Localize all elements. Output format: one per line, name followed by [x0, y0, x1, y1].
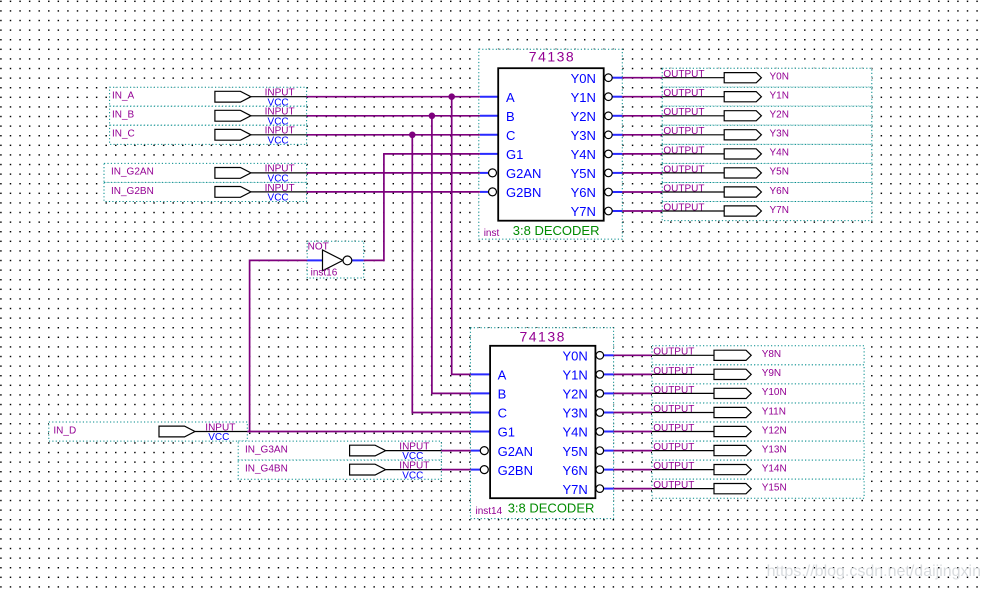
output pin Y15N: [652, 479, 864, 498]
output pin Y7N: [662, 202, 872, 221]
wire Y13N: [614, 450, 652, 452]
output pin Y2N: [662, 106, 872, 125]
wire Y8N: [614, 354, 652, 356]
svg-text:B: B: [498, 387, 507, 402]
svg-text:OUTPUT: OUTPUT: [653, 366, 694, 377]
input pin IN_D: [49, 422, 248, 443]
wire Y5N: [622, 172, 662, 174]
wire Y12N: [614, 431, 652, 433]
svg-text:inst: inst: [484, 228, 500, 239]
watermark: [767, 563, 981, 580]
wire IN_G4BN to G2BN: [441, 469, 471, 471]
input pin IN_C: [110, 125, 307, 146]
svg-text:Y10N: Y10N: [762, 387, 787, 398]
output pin Y14N: [652, 460, 864, 479]
svg-text:G2AN: G2AN: [506, 166, 541, 181]
svg-text:Y4N: Y4N: [770, 148, 789, 159]
svg-text:Y0N: Y0N: [571, 71, 596, 86]
wire C branch: [412, 135, 471, 413]
svg-text:Y5N: Y5N: [563, 444, 588, 459]
svg-text:Y13N: Y13N: [762, 444, 787, 455]
svg-text:OUTPUT: OUTPUT: [663, 88, 704, 99]
wire Y0N: [622, 77, 662, 79]
junction C: [409, 132, 416, 139]
decoder U2 74138 (inst14): [470, 328, 613, 519]
output pin Y3N: [662, 125, 872, 144]
svg-text:Y9N: Y9N: [762, 368, 781, 379]
wire IN_C to C: [307, 134, 480, 136]
svg-text:Y6N: Y6N: [770, 186, 789, 197]
svg-text:Y6N: Y6N: [571, 185, 596, 200]
svg-text:IN_G2AN: IN_G2AN: [111, 167, 154, 178]
junction A: [448, 93, 455, 100]
svg-text:Y5N: Y5N: [770, 167, 789, 178]
svg-text:Y0N: Y0N: [770, 72, 789, 83]
svg-text:G1: G1: [506, 147, 523, 162]
output pin Y1N: [662, 87, 872, 106]
svg-text:OUTPUT: OUTPUT: [663, 107, 704, 118]
svg-text:Y11N: Y11N: [762, 406, 786, 417]
svg-text:OUTPUT: OUTPUT: [653, 480, 694, 491]
input pin IN_G3AN: [238, 441, 441, 462]
wire Y1N: [622, 96, 662, 98]
input pin IN_A: [110, 87, 307, 108]
svg-text:A: A: [506, 90, 515, 105]
wire IN_A to A: [307, 96, 480, 98]
wire Y15N: [614, 488, 652, 490]
wire Y3N: [622, 134, 662, 136]
svg-text:3:8 DECODER: 3:8 DECODER: [508, 501, 595, 516]
svg-text:Y0N: Y0N: [563, 349, 588, 364]
input pin IN_B: [110, 106, 307, 127]
not gate inst16: [307, 241, 364, 278]
svg-text:Y8N: Y8N: [762, 349, 781, 360]
svg-text:IN_B: IN_B: [112, 110, 135, 121]
input pin IN_G2BN: [104, 182, 307, 203]
wire IN_D to NOT input: [250, 260, 308, 431]
svg-text:Y15N: Y15N: [762, 482, 787, 493]
svg-text:Y6N: Y6N: [563, 463, 588, 478]
svg-text:Y7N: Y7N: [563, 482, 588, 497]
svg-text:OUTPUT: OUTPUT: [663, 145, 704, 156]
svg-text:Y4N: Y4N: [563, 425, 588, 440]
output pin Y5N: [662, 163, 872, 182]
svg-text:OUTPUT: OUTPUT: [653, 442, 694, 453]
svg-text:Y3N: Y3N: [770, 129, 789, 140]
output pin Y8N: [652, 346, 864, 365]
svg-text:VCC: VCC: [402, 470, 423, 481]
svg-text:A: A: [498, 368, 507, 383]
output pin Y9N: [652, 365, 864, 384]
output pin Y12N: [652, 422, 864, 441]
svg-text:Y14N: Y14N: [762, 463, 787, 474]
svg-text:inst16: inst16: [311, 268, 338, 279]
svg-text:G2AN: G2AN: [498, 444, 533, 459]
wire B branch: [432, 116, 471, 394]
svg-text:Y1N: Y1N: [770, 91, 789, 102]
output pin Y11N: [652, 403, 864, 422]
wire IN_G2AN to G2AN: [307, 172, 480, 174]
wire IN_G2BN to G2BN: [307, 191, 480, 193]
svg-text:Y1N: Y1N: [563, 368, 588, 383]
svg-text:Y1N: Y1N: [571, 90, 596, 105]
svg-text:Y2N: Y2N: [770, 110, 789, 121]
svg-text:74138: 74138: [529, 48, 575, 64]
svg-text:74138: 74138: [519, 329, 565, 345]
wire IN_G3AN to G2AN: [441, 450, 471, 452]
svg-text:OUTPUT: OUTPUT: [663, 164, 704, 175]
svg-text:Y3N: Y3N: [563, 406, 588, 421]
svg-text:IN_G3AN: IN_G3AN: [245, 444, 288, 455]
output pin Y6N: [662, 183, 872, 202]
wire IN_D to G1 (bottom): [247, 431, 470, 433]
wire A branch: [452, 97, 471, 375]
svg-text:C: C: [498, 406, 507, 421]
svg-text:IN_D: IN_D: [53, 425, 76, 436]
output pin Y4N: [662, 144, 872, 163]
svg-text:OUTPUT: OUTPUT: [663, 69, 704, 80]
svg-text:VCC: VCC: [268, 136, 289, 147]
svg-text:OUTPUT: OUTPUT: [653, 404, 694, 415]
svg-text:G1: G1: [498, 425, 515, 440]
svg-text:OUTPUT: OUTPUT: [653, 385, 694, 396]
svg-text:NOT: NOT: [308, 241, 329, 252]
svg-text:Y7N: Y7N: [770, 205, 789, 216]
wire Y2N: [622, 115, 662, 117]
wire Y11N: [614, 412, 652, 414]
svg-text:OUTPUT: OUTPUT: [653, 347, 694, 358]
svg-text:OUTPUT: OUTPUT: [653, 423, 694, 434]
wire Y4N: [622, 153, 662, 155]
svg-text:Y2N: Y2N: [571, 109, 596, 124]
svg-text:inst14: inst14: [476, 506, 503, 517]
svg-text:Y12N: Y12N: [762, 425, 787, 436]
wire Y7N: [622, 210, 662, 212]
svg-text:IN_C: IN_C: [112, 129, 135, 140]
svg-text:Y4N: Y4N: [571, 147, 596, 162]
svg-text:IN_A: IN_A: [112, 91, 135, 102]
svg-text:Y2N: Y2N: [563, 387, 588, 402]
svg-text:G2BN: G2BN: [498, 463, 533, 478]
svg-text:Y5N: Y5N: [571, 166, 596, 181]
wire Y14N: [614, 469, 652, 471]
wire Y9N: [614, 373, 652, 375]
wire IN_B to B: [307, 115, 480, 117]
input pin IN_G4BN: [238, 460, 441, 481]
svg-text:Y7N: Y7N: [571, 204, 596, 219]
svg-text:VCC: VCC: [208, 432, 229, 443]
decoder U1 74138 (inst): [479, 48, 623, 239]
wire NOT output to G1 (top): [364, 154, 480, 261]
svg-text:Y3N: Y3N: [571, 128, 596, 143]
svg-text:IN_G4BN: IN_G4BN: [245, 463, 288, 474]
input pin IN_G2AN: [104, 163, 307, 184]
svg-text:https://blog.csdn.net/daijingx: https://blog.csdn.net/daijingxin: [767, 563, 981, 580]
svg-text:OUTPUT: OUTPUT: [663, 126, 704, 137]
svg-text:OUTPUT: OUTPUT: [653, 461, 694, 472]
svg-text:B: B: [506, 109, 515, 124]
output pin Y10N: [652, 384, 864, 403]
svg-text:OUTPUT: OUTPUT: [663, 183, 704, 194]
junction B: [429, 113, 436, 120]
svg-text:IN_G2BN: IN_G2BN: [111, 186, 154, 197]
svg-text:C: C: [506, 128, 515, 143]
svg-text:VCC: VCC: [268, 193, 289, 204]
output pin Y0N: [662, 68, 872, 87]
wire Y6N: [622, 191, 662, 193]
svg-text:OUTPUT: OUTPUT: [663, 202, 704, 213]
svg-text:3:8 DECODER: 3:8 DECODER: [513, 223, 600, 238]
svg-text:G2BN: G2BN: [506, 185, 541, 200]
wire Y10N: [614, 392, 652, 394]
output pin Y13N: [652, 441, 864, 460]
